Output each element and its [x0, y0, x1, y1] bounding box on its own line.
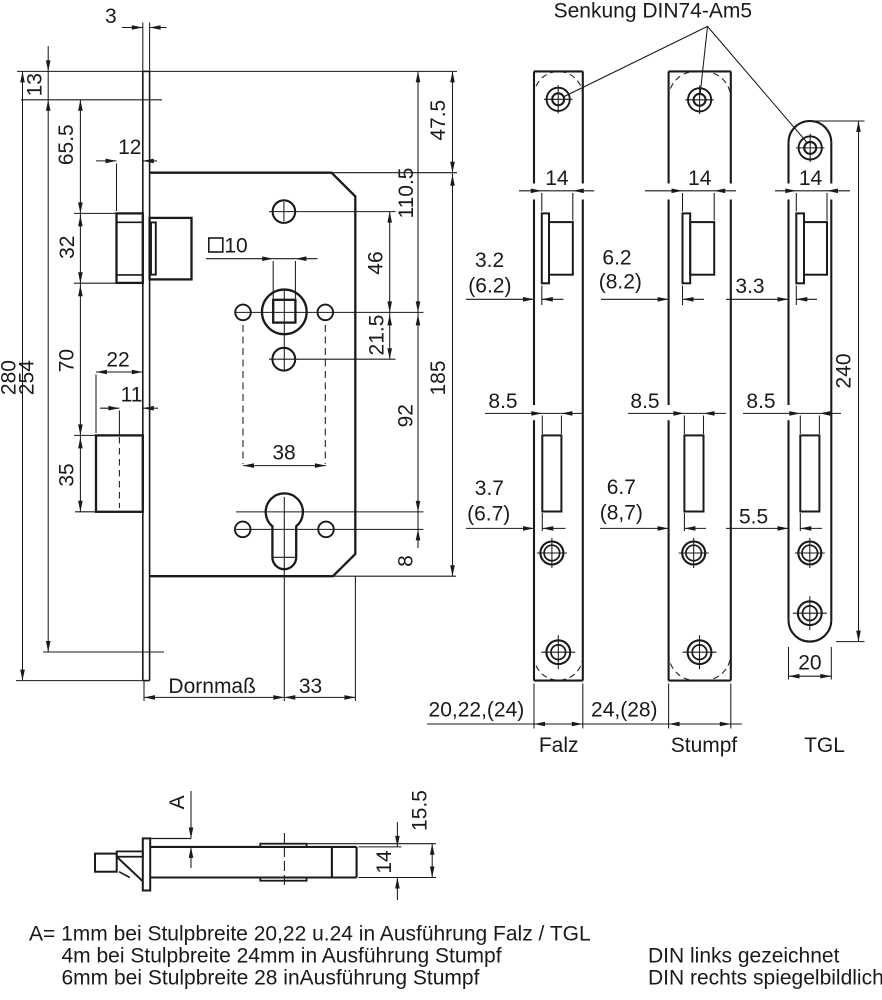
extension line deadbolt bottom [75, 511, 96, 513]
latch bolt tail inside case [150, 218, 192, 280]
svg-text:DIN links gezeichnet: DIN links gezeichnet [648, 945, 840, 968]
svg-text:14: 14 [545, 167, 569, 190]
svg-text:22: 22 [106, 348, 129, 371]
svg-text:3: 3 [105, 5, 117, 28]
side view centerline [283, 833, 285, 888]
svg-text:32: 32 [56, 236, 79, 259]
extension line faceplate right edge [149, 23, 151, 72]
Falz width dimension 20,22,(24) [533, 684, 535, 729]
svg-text:4m bei Stulpbreite 24mm in Aus: 4m bei Stulpbreite 24mm in Ausführung St… [62, 945, 502, 968]
cylinder centerline horizontal [236, 511, 424, 513]
svg-text:8.5: 8.5 [630, 390, 659, 413]
side view case body [150, 846, 356, 848]
extension line faceplate bottom [16, 680, 143, 682]
TGL dimension 5.5 [726, 527, 789, 529]
svg-text:3.2: 3.2 [475, 249, 504, 272]
svg-text:6.2: 6.2 [602, 247, 631, 270]
Falz deadbolt cutout [542, 435, 561, 511]
dimension 38 [243, 465, 326, 467]
Stumpf latch cutout [683, 213, 691, 283]
centerline lower hole (extension for 21.5) [269, 358, 396, 360]
Stumpf dimension 8.5 [628, 412, 726, 414]
faceplate edge (main view) [142, 71, 144, 680]
dimensions 65.5 / 32 / 70 / 35 [79, 100, 81, 512]
Stumpf dimension 6.7 (8,7) [600, 527, 669, 529]
svg-text:21.5: 21.5 [366, 315, 389, 356]
hidden centerline right [324, 325, 326, 464]
svg-text:8: 8 [395, 555, 418, 567]
svg-text:92: 92 [395, 404, 418, 427]
svg-text:DIN rechts spiegelbildlich: DIN rechts spiegelbildlich [648, 967, 882, 990]
follower square 10mm [273, 300, 295, 323]
svg-text:185: 185 [427, 360, 450, 395]
dimensions 46 and 21.5 [389, 212, 391, 360]
Falz dimension 8.5 [485, 412, 582, 414]
extension line case top [332, 172, 458, 174]
svg-text:14: 14 [373, 850, 396, 874]
side hole left (cylinder level) [235, 522, 251, 538]
TGL deadbolt cutout [800, 435, 819, 511]
svg-text:A= 1mm bei Stulpbreite 20,22 u: A= 1mm bei Stulpbreite 20,22 u.24 in Aus… [29, 923, 591, 946]
svg-text:20,22,(24): 20,22,(24) [429, 698, 525, 721]
Stumpf top screw hole (countersunk) [688, 88, 711, 111]
svg-text:11: 11 [121, 384, 143, 407]
svg-text:13: 13 [23, 73, 46, 96]
svg-text:10: 10 [224, 234, 247, 257]
dimension 12 (latch protrusion) [96, 160, 117, 162]
dimension square 10 [209, 238, 223, 252]
extension line latch bottom [74, 282, 117, 284]
follower centerline horizontal [236, 311, 424, 313]
extension line faceplate left edge [142, 23, 144, 72]
dimensions 47.5 and 185 [452, 71, 454, 576]
Falz bottom screw hole [546, 640, 570, 664]
extension line deadbolt top [74, 434, 96, 436]
profile cylinder hole [266, 493, 303, 569]
dimension 14 (case thickness) [396, 822, 398, 847]
Stumpf dimension 14 [645, 190, 736, 192]
svg-text:6.7: 6.7 [607, 476, 636, 499]
dimension A [190, 791, 192, 839]
TGL top screw hole (countersunk) [799, 136, 822, 159]
svg-text:254: 254 [16, 360, 39, 395]
Falz latch cutout [542, 213, 549, 283]
extension line deadbolt left edge [95, 375, 97, 434]
svg-text:24,(28): 24,(28) [591, 698, 658, 721]
svg-text:Senkung DIN74-Am5: Senkung DIN74-Am5 [554, 0, 752, 22]
Stumpf dimension 6.2 (8.2) [601, 298, 669, 300]
TGL dimension 14 [775, 190, 850, 192]
Stumpf deadbolt cutout [684, 435, 703, 511]
side view extension lines [307, 843, 436, 845]
svg-text:14: 14 [799, 167, 823, 190]
extension case right edge [354, 576, 356, 701]
svg-text:240: 240 [833, 353, 856, 388]
extension line latch top [74, 212, 117, 214]
svg-text:47.5: 47.5 [427, 100, 450, 141]
TGL dimension 3.3 [726, 298, 789, 300]
lock case outline [150, 173, 356, 577]
svg-text:(8,7): (8,7) [600, 502, 643, 525]
Falz faceplate strip [533, 71, 535, 183]
centerline cylinder bottom arc [272, 556, 297, 558]
svg-text:8.5: 8.5 [746, 390, 775, 413]
Falz top screw hole (countersunk) [547, 88, 570, 111]
svg-text:(6.7): (6.7) [467, 502, 510, 525]
svg-text:65.5: 65.5 [55, 124, 78, 165]
svg-text:3.7: 3.7 [475, 477, 504, 500]
dimensions 110.5 / 92 / 8 [417, 71, 419, 548]
TGL latch cutout [796, 213, 804, 283]
Falz dimension 3.2 (6.2) [466, 298, 534, 300]
Stumpf faceplate strip [668, 71, 670, 183]
extension line latch left edge [116, 164, 118, 212]
side hole right (follower level) [318, 305, 334, 321]
svg-text:3.3: 3.3 [735, 275, 764, 298]
side view clip top [260, 844, 306, 847]
extension line 254 bottom [43, 651, 164, 653]
dimension 22 (deadbolt width) [96, 371, 143, 373]
centerline upper hole (extension for 46) [269, 211, 396, 213]
svg-text:35: 35 [55, 463, 78, 486]
svg-text:20: 20 [798, 652, 821, 675]
handle follower circle [262, 290, 307, 335]
latch bolt head (protruding) [117, 213, 143, 283]
upper screw hole in case [273, 200, 296, 223]
svg-text:TGL: TGL [804, 734, 845, 757]
svg-text:46: 46 [365, 251, 388, 274]
side hole left (follower level) [235, 305, 251, 321]
lower screw hole in case [272, 348, 295, 371]
leader line to Stumpf screw hole [700, 26, 707, 93]
svg-text:110.5: 110.5 [395, 168, 418, 219]
follower centerline vertical [283, 289, 285, 372]
hidden centerline left [242, 325, 244, 464]
Falz middle screw hole [540, 542, 563, 565]
svg-text:A: A [166, 795, 189, 809]
TGL dimension 8.5 [743, 412, 841, 414]
TGL bottom screw hole [798, 601, 822, 625]
side view faceplate bar [143, 838, 150, 890]
side hole right (cylinder level) [318, 522, 334, 538]
svg-text:Stumpf: Stumpf [671, 734, 738, 757]
Stumpf optional rounded end arcs (dashed) [669, 71, 696, 98]
Stumpf width dimension 24,(28) [668, 684, 670, 729]
svg-text:6mm bei Stulpbreite 28 inAusfü: 6mm bei Stulpbreite 28 inAusführung Stum… [62, 967, 480, 990]
svg-text:15.5: 15.5 [409, 790, 432, 831]
TGL middle screw hole [798, 542, 821, 565]
extension line faceplate top [17, 70, 457, 72]
Falz dimension 14 [519, 190, 594, 192]
leader line to Falz screw hole [564, 26, 708, 96]
svg-text:Falz: Falz [539, 734, 579, 757]
dimension 11 [100, 407, 119, 409]
TGL faceplate strip [787, 142, 789, 183]
svg-text:12: 12 [118, 136, 141, 159]
svg-text:Dornmaß: Dornmaß [168, 675, 256, 698]
dimension 13 and 254 [47, 46, 49, 652]
hidden line inside deadbolt [118, 411, 120, 435]
svg-text:33: 33 [299, 675, 322, 698]
centerline side holes (cylinder level) [236, 528, 424, 530]
svg-text:(8.2): (8.2) [599, 271, 642, 294]
leader line to TGL screw hole [708, 26, 807, 142]
Stumpf middle screw hole [682, 542, 705, 565]
Falz optional rounded end arcs (dashed) [534, 72, 583, 96]
side view clip bottom [260, 878, 306, 881]
TGL dimension 240 [812, 120, 865, 122]
Stumpf bottom screw hole [688, 640, 712, 664]
Falz dimension 3.7 (6.7) [466, 527, 534, 529]
dimension 3 (faceplate thickness) [122, 27, 143, 29]
svg-text:(6.2): (6.2) [468, 275, 511, 298]
svg-text:70: 70 [55, 349, 78, 372]
svg-text:5.5: 5.5 [739, 506, 768, 529]
extension faceplate front [143, 681, 145, 701]
TGL width dimension 20 [788, 647, 790, 680]
side view latch top line [150, 838, 191, 840]
deadbolt head (thrown) [96, 435, 143, 511]
extension line case bottom [333, 575, 456, 577]
dimension 280 (overall faceplate length) [22, 71, 24, 680]
side view latch head [95, 854, 117, 872]
svg-text:38: 38 [272, 441, 295, 464]
dimension 15.5 [431, 844, 433, 878]
extension line 13 lower boundary [21, 99, 162, 101]
svg-text:8.5: 8.5 [488, 390, 517, 413]
svg-text:14: 14 [688, 167, 712, 190]
